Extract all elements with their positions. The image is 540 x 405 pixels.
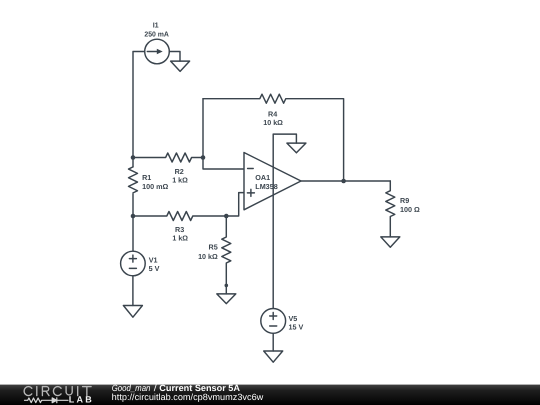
svg-text:http://circuitlab.com/cp8vmumz: http://circuitlab.com/cp8vmumz3vc6w — [112, 392, 264, 402]
label R9 value 100 Ohm — [400, 196, 420, 214]
svg-text:100 Ω: 100 Ω — [400, 205, 420, 214]
svg-text:5 V: 5 V — [149, 264, 160, 273]
resistor R4 feedback — [203, 94, 344, 181]
voltage source V1 — [121, 251, 146, 276]
ground (op-amp V+) — [287, 143, 306, 153]
svg-text:1 kΩ: 1 kΩ — [172, 176, 188, 185]
ground (I1) — [171, 61, 190, 71]
node junction output-feedback — [341, 179, 346, 184]
label V1 value 5 V — [149, 256, 160, 274]
label R5 value 10 kOhm — [198, 242, 218, 260]
svg-text:I1: I1 — [153, 21, 159, 30]
svg-text:10 kΩ: 10 kΩ — [198, 252, 218, 261]
CircuitLab logo LAB — [69, 395, 93, 405]
node R5 bottom terminal — [225, 284, 229, 288]
svg-text:R1: R1 — [142, 173, 151, 182]
label R3 value 1 kOhm — [172, 225, 188, 242]
wire op-amp output — [301, 180, 390, 182]
wire V1 to ground — [132, 276, 134, 306]
resistor R1 vertical — [129, 167, 138, 193]
wire V5 to ground — [272, 333, 274, 351]
svg-text:1 kΩ: 1 kΩ — [172, 233, 188, 242]
voltage source V5 — [261, 309, 286, 334]
CircuitLab logo CIRCUIT — [24, 387, 91, 396]
wire feedback vertical to op-amp inverting input — [203, 99, 244, 169]
svg-text:250 mA: 250 mA — [144, 30, 169, 39]
resistor R3 — [133, 212, 226, 221]
label R1 value 100 mOhm — [142, 173, 168, 191]
label R2 value 1 kOhm — [172, 167, 188, 184]
node junction R1-R2 — [131, 155, 136, 160]
wire left branch from I1 down through R1 to V1 — [133, 52, 145, 252]
svg-text:100 mΩ: 100 mΩ — [142, 182, 168, 191]
node junction R2-feedback — [201, 155, 206, 160]
ground (R9) — [381, 237, 400, 247]
wire to op-amp non-inverting input — [226, 193, 244, 216]
wire op-amp power rails vertical — [273, 134, 296, 308]
ground (R5) — [217, 294, 236, 304]
label OA1 LM358 — [255, 173, 277, 191]
svg-text:R5: R5 — [209, 242, 218, 251]
svg-text:OA1: OA1 — [255, 173, 270, 182]
footer title: Good_man / Current Sensor 5A — [112, 383, 241, 393]
CircuitLab logo resistor-diode squiggle — [25, 398, 69, 403]
svg-text:R9: R9 — [400, 196, 409, 205]
resistor R5 vertical — [222, 216, 231, 294]
label R4 value 10 kOhm — [263, 110, 283, 127]
footer url — [112, 392, 264, 402]
wire I1 to ground — [169, 52, 180, 62]
svg-text:LAB: LAB — [69, 395, 93, 405]
op-amp inverting input - symbol — [248, 168, 254, 170]
svg-text:LM358: LM358 — [255, 182, 277, 191]
op-amp non-inverting input + symbol — [247, 189, 254, 196]
label V5 value 15 V — [289, 314, 304, 332]
resistor R9 vertical — [386, 181, 395, 237]
footer bar — [0, 385, 540, 405]
resistor R2 — [133, 153, 203, 162]
op-amp OA1 triangle — [244, 153, 301, 210]
label I1 value 250 mA — [144, 21, 169, 39]
node junction R3-R5-noninverting — [224, 214, 229, 219]
svg-text:10 kΩ: 10 kΩ — [263, 118, 283, 127]
node junction R1-R3 — [131, 214, 136, 219]
ground (V1) — [123, 306, 142, 318]
current source I1 — [145, 39, 170, 64]
svg-text:15 V: 15 V — [289, 323, 304, 332]
ground (V5) — [264, 351, 283, 362]
